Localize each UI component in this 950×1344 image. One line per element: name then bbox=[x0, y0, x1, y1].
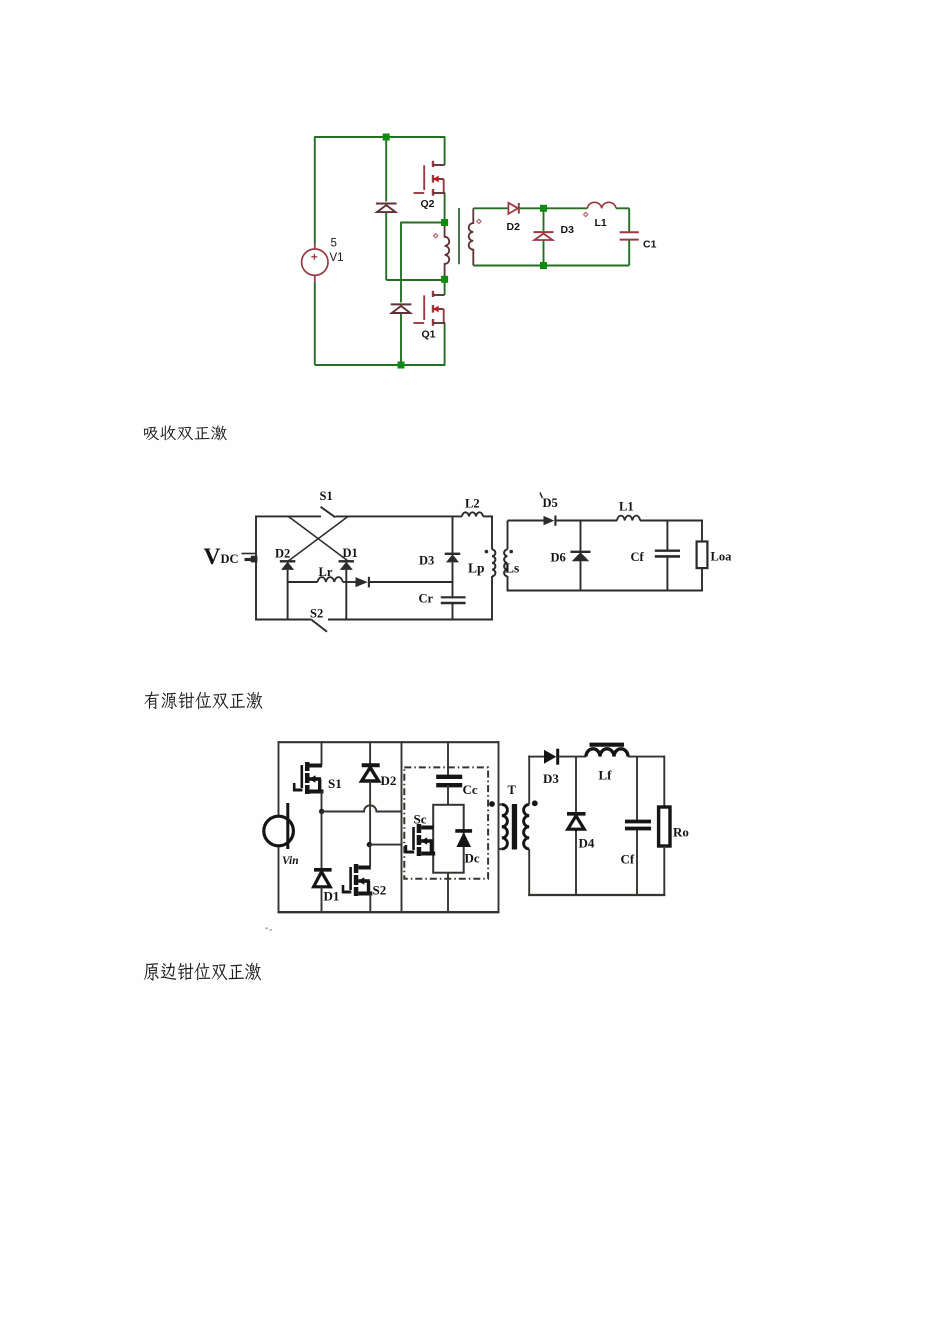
wire Cf branch bottom bbox=[666, 556, 668, 591]
wire D2 anode down bbox=[287, 570, 289, 620]
svg-text:Q1: Q1 bbox=[422, 329, 436, 341]
crossing line S1b bbox=[288, 516, 348, 561]
wire sec left edge bottom bbox=[507, 576, 509, 591]
svg-text:Dc: Dc bbox=[465, 851, 480, 866]
capacitor Cr bbox=[441, 597, 466, 603]
svg-text:D6: D6 bbox=[551, 551, 566, 565]
wire D2 anode to primary bottom vertical bbox=[385, 212, 387, 280]
speck artifact bbox=[266, 928, 272, 931]
polarity dot primary bbox=[434, 234, 438, 238]
source Vin bbox=[264, 803, 294, 849]
wire Lr rail left bbox=[288, 581, 318, 583]
wire top rail bbox=[315, 136, 445, 138]
wire primary bottom to Q1 drain bbox=[444, 279, 446, 295]
wire Cf branch bbox=[636, 757, 638, 822]
junction node bbox=[540, 262, 547, 269]
wire top edge right end bbox=[483, 515, 493, 517]
transistor Sc bbox=[405, 824, 436, 856]
svg-text:Loa: Loa bbox=[711, 550, 733, 564]
wire sec left edge top bbox=[507, 521, 509, 550]
wire top edge bbox=[278, 741, 500, 743]
transistor Q2 bbox=[414, 161, 446, 196]
wire bottom edge left of S2 bbox=[255, 619, 311, 621]
wire right vertical to Q2 drain bbox=[444, 136, 446, 165]
svg-text:5: 5 bbox=[331, 238, 337, 250]
diode D2 bbox=[508, 203, 518, 214]
wire node to D1 branch horizontal bbox=[401, 222, 445, 224]
wire Q2 source to primary node bbox=[444, 193, 446, 223]
inductor Lf core bar bbox=[590, 743, 625, 747]
wire left edge bbox=[255, 516, 257, 621]
wire S1 branch bottom bbox=[321, 792, 323, 813]
svg-text:D2: D2 bbox=[275, 547, 290, 561]
switch S2 blade bbox=[312, 620, 328, 632]
junction node bbox=[441, 276, 448, 283]
dashed snubber box bbox=[404, 767, 488, 878]
svg-text:D2: D2 bbox=[381, 773, 397, 788]
junction node bbox=[398, 362, 405, 369]
svg-text:L2: L2 bbox=[465, 497, 480, 511]
wire sec bottom edge bbox=[507, 590, 703, 592]
diode D5 bbox=[544, 516, 556, 526]
wire Ds to Cr branch bbox=[370, 581, 453, 583]
wire sec right edge bottom bbox=[663, 846, 665, 896]
svg-text:Vin: Vin bbox=[282, 855, 299, 867]
polarity dot Ls bbox=[509, 550, 513, 554]
wire inner box to bottom edge bbox=[447, 873, 449, 913]
wire sec right edge top bbox=[663, 756, 665, 807]
svg-text:D3: D3 bbox=[543, 771, 559, 786]
inductor L2 bbox=[462, 512, 483, 516]
wire output right vertical bbox=[628, 208, 630, 232]
wire Cc branch top bbox=[447, 741, 449, 776]
inductor L1 bbox=[617, 516, 640, 521]
crossing line S1a bbox=[288, 516, 348, 561]
voltage source V1 bbox=[302, 244, 328, 284]
wire top edge left of S1 bbox=[255, 515, 321, 517]
junction node bbox=[383, 134, 390, 141]
wire secondary bottom rail bbox=[473, 265, 629, 267]
junction node bbox=[441, 219, 448, 226]
wire Cf branch top bbox=[666, 521, 668, 551]
transistor Q1 bbox=[414, 291, 446, 326]
svg-text:Cf: Cf bbox=[621, 852, 635, 867]
wire sec top edge to D3 bbox=[528, 756, 544, 758]
text label "有源钳位双正激" bbox=[144, 691, 262, 709]
wire S2 branch bbox=[369, 845, 371, 866]
inner loop box bbox=[433, 805, 464, 873]
wire S2 source to bottom bbox=[369, 894, 371, 914]
diode D2 bbox=[362, 765, 380, 781]
wire sec top edge to D5 bbox=[508, 520, 544, 522]
wire Q1 source to bottom rail bbox=[444, 323, 446, 366]
wire D1 branch top bbox=[321, 812, 323, 870]
transformer core bbox=[458, 208, 460, 264]
polarity dot Lp bbox=[485, 550, 489, 554]
diode Dc bbox=[455, 831, 472, 847]
svg-text:Lf: Lf bbox=[599, 768, 613, 783]
wire bottom edge right of S2 bbox=[328, 619, 493, 621]
polarity dot secondary bbox=[532, 800, 538, 806]
wire D3 branch upper bbox=[452, 516, 454, 553]
transformer secondary Ls bbox=[504, 550, 507, 577]
transistor S2 bbox=[342, 864, 373, 896]
svg-text:S2: S2 bbox=[373, 883, 387, 898]
diode D3 bbox=[534, 232, 554, 240]
polarity dot secondary bbox=[477, 219, 481, 223]
svg-text:D3: D3 bbox=[419, 554, 434, 568]
svg-text:Lp: Lp bbox=[468, 561, 485, 576]
wire sec bottom edge bbox=[528, 894, 665, 896]
svg-text:S1: S1 bbox=[328, 776, 342, 791]
diode D4 bbox=[567, 814, 586, 829]
transformer primary winding bbox=[445, 223, 450, 280]
wire bottom edge bbox=[278, 911, 500, 913]
diode D2 bbox=[280, 561, 296, 570]
wire D1 branch vertical upper bbox=[400, 222, 402, 303]
svg-text:L1: L1 bbox=[595, 217, 607, 229]
polarity dot L1 bbox=[584, 212, 588, 216]
wire D1 branch vertical lower bbox=[400, 313, 402, 366]
wire D3 to Cr bbox=[452, 562, 454, 597]
capacitor Cc bbox=[436, 777, 462, 785]
svg-text:Ls: Ls bbox=[505, 561, 519, 576]
svg-text:D5: D5 bbox=[543, 496, 558, 510]
svg-text:Sc: Sc bbox=[414, 812, 427, 827]
junction node B bbox=[367, 842, 372, 847]
svg-text:S1: S1 bbox=[320, 489, 333, 503]
wire Lr to Ds bbox=[343, 581, 356, 583]
wire right edge top bbox=[491, 516, 493, 550]
wire D3 lead bbox=[543, 208, 545, 231]
svg-text:Ro: Ro bbox=[673, 825, 689, 840]
switch S1 blade bbox=[321, 507, 336, 518]
svg-text:Lr: Lr bbox=[319, 565, 333, 579]
load resistor Ro bbox=[659, 807, 670, 846]
wire sec right edge bottom bbox=[701, 568, 703, 591]
svg-text:L1: L1 bbox=[619, 500, 634, 514]
svg-text:Cf: Cf bbox=[631, 550, 645, 564]
transformer secondary winding bbox=[524, 805, 530, 849]
diode D1 bbox=[314, 870, 332, 887]
inductor Lr bbox=[318, 577, 343, 582]
wire sec top edge D3 to D4 bbox=[559, 756, 586, 758]
diode D_clamp_upper bbox=[376, 204, 397, 213]
wire sec left edge bottom bbox=[528, 849, 530, 896]
wire secondary top rail bbox=[473, 207, 508, 209]
transformer primary Lp bbox=[492, 550, 495, 577]
svg-text:S2: S2 bbox=[310, 607, 323, 621]
text label "吸收双正激" bbox=[144, 425, 227, 440]
wire clamp right edge bbox=[498, 741, 500, 913]
svg-text:V1: V1 bbox=[330, 252, 344, 264]
diode Ds (series, points right) bbox=[356, 577, 369, 588]
diode D_clamp_lower bbox=[391, 304, 412, 313]
wire sec top edge Lf to right bbox=[628, 756, 665, 758]
wire sec top edge right bbox=[640, 520, 703, 522]
transformer primary winding bbox=[502, 805, 508, 849]
diode D3 bbox=[544, 749, 558, 765]
wire sec left edge top bbox=[528, 756, 530, 805]
wire left edge bbox=[278, 741, 280, 816]
transformer core bbox=[512, 804, 517, 850]
battery VDC symbol bbox=[242, 554, 258, 563]
wire primary bottom horizontal bbox=[386, 279, 444, 281]
capacitor C1 bbox=[620, 232, 639, 239]
wire D2 branch top bbox=[369, 741, 371, 765]
wire D2 to node B bbox=[369, 781, 371, 846]
wire D4 branch bbox=[575, 757, 577, 813]
svg-text:VDC: VDC bbox=[204, 544, 239, 570]
wire left vertical bottom bbox=[314, 282, 316, 365]
svg-text:D1: D1 bbox=[343, 546, 358, 560]
svg-text:T: T bbox=[508, 783, 517, 797]
transformer secondary winding bbox=[469, 208, 474, 265]
wire primary bottom stub bbox=[499, 848, 502, 850]
wire S1 branch top bbox=[321, 741, 323, 765]
wire node B to clamp bbox=[369, 844, 402, 846]
diode D1 bbox=[339, 561, 355, 570]
svg-text:D4: D4 bbox=[579, 836, 595, 851]
svg-text:Q2: Q2 bbox=[421, 198, 435, 210]
junction node A bbox=[319, 809, 324, 814]
text label "原边钳位双正激" bbox=[144, 962, 261, 980]
wire primary top stub bbox=[499, 803, 502, 805]
svg-text:D1: D1 bbox=[324, 889, 340, 904]
wire clamp left edge bbox=[401, 741, 403, 913]
wire D6 branch bottom bbox=[580, 560, 582, 591]
inductor Lf bbox=[586, 749, 628, 757]
wire D6 branch top bbox=[580, 521, 582, 552]
wire D2 clamp branch vertical bbox=[385, 136, 387, 201]
svg-text:Cr: Cr bbox=[419, 592, 434, 606]
transistor S1 bbox=[293, 762, 324, 794]
wire D1 anode down bbox=[345, 570, 347, 620]
wire Cr to bottom bbox=[452, 603, 454, 620]
wire mid rail with hop bbox=[322, 805, 403, 811]
junction node bbox=[540, 205, 547, 212]
inductor L1 bbox=[587, 202, 616, 208]
wire right edge bottom bbox=[491, 576, 493, 620]
wire sec right edge top bbox=[701, 520, 703, 542]
svg-text:Cc: Cc bbox=[463, 782, 478, 797]
tick mark bbox=[540, 493, 542, 499]
diode D6 bbox=[571, 552, 591, 561]
wire bottom rail bbox=[315, 364, 445, 366]
load resistor bbox=[697, 542, 708, 569]
capacitor Cf bbox=[655, 551, 680, 557]
svg-text:D3: D3 bbox=[561, 224, 575, 236]
svg-text:C1: C1 bbox=[643, 239, 657, 251]
capacitor Cf bbox=[625, 822, 651, 829]
svg-text:D2: D2 bbox=[507, 221, 521, 233]
wire top edge right of S1 bbox=[336, 515, 463, 517]
wire Cc to inner box bbox=[447, 785, 449, 805]
polarity dot primary bbox=[489, 801, 495, 807]
wire left vertical top bbox=[314, 136, 316, 244]
diode D3 bbox=[445, 554, 461, 563]
wire D1 to bottom bbox=[321, 887, 323, 913]
wire sec top edge D5 to L1 bbox=[556, 520, 617, 522]
